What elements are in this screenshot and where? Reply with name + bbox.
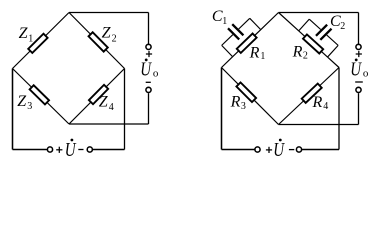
svg-text:R: R bbox=[249, 44, 260, 61]
wire up to right node (rt) bbox=[338, 68, 340, 150]
wire arm R to split bbox=[328, 57, 339, 67]
svg-text:R: R bbox=[312, 94, 323, 111]
impedance Z2 bbox=[89, 32, 108, 51]
impedance Z4 bbox=[89, 85, 108, 104]
label minus of U source (left) bbox=[78, 149, 83, 151]
label + of U source (left) bbox=[56, 149, 62, 151]
wire R2 branch bbox=[299, 31, 328, 57]
label Uo (left) bbox=[140, 57, 152, 80]
capacitor C2 plate lower bbox=[320, 29, 331, 40]
capacitor C1 plate lower bbox=[228, 28, 239, 39]
label minus of U source (right) bbox=[289, 149, 294, 151]
wire split to C1 branch low bbox=[222, 45, 233, 56]
wire split to C1 branch high bbox=[250, 18, 261, 29]
resistor R1 bbox=[237, 33, 257, 52]
resistor R4 bbox=[302, 84, 322, 103]
resistor R2 bbox=[303, 34, 323, 53]
impedance Z3 bbox=[30, 85, 49, 104]
wire bottom to source + bbox=[13, 149, 48, 151]
svg-text:2: 2 bbox=[303, 51, 308, 62]
label + of U source (right) bbox=[266, 149, 272, 151]
wire split to C2 branch low bbox=[328, 45, 339, 57]
label U source (right) bbox=[273, 138, 285, 161]
svg-text:U: U bbox=[65, 138, 77, 161]
capacitor C2 plate upper bbox=[316, 25, 327, 36]
wire arm to Z2 bbox=[69, 13, 125, 69]
svg-text:3: 3 bbox=[241, 101, 246, 112]
svg-text:4: 4 bbox=[109, 102, 114, 113]
wire arm L to split bbox=[222, 57, 233, 68]
svg-text:4: 4 bbox=[323, 101, 328, 112]
wire down to + terminal (rt) bbox=[358, 13, 360, 45]
svg-text:1: 1 bbox=[222, 16, 227, 27]
svg-text:Z: Z bbox=[17, 93, 27, 110]
wire top node to output bbox=[69, 12, 149, 14]
wire - terminal down bbox=[148, 93, 150, 124]
source terminal + (left) bbox=[47, 147, 52, 152]
wire C2 branch upper bbox=[309, 19, 320, 29]
wire source - to corner bbox=[93, 149, 125, 151]
capacitor C1 plate upper bbox=[232, 24, 243, 35]
terminal - of Uo (left) bbox=[146, 87, 151, 92]
wire split to top node (rt) bbox=[279, 13, 299, 31]
wire C1 branch upper bbox=[239, 18, 250, 29]
wire top node to output (rt) bbox=[279, 12, 359, 14]
label minus of Uo (left) bbox=[146, 81, 151, 83]
wire source - to corner (rt) bbox=[302, 149, 339, 151]
wire arm to Z3 bbox=[13, 69, 70, 125]
source terminal + (right ckt) bbox=[255, 147, 260, 152]
source terminal - (right ckt) bbox=[296, 147, 301, 152]
wire left node down (rt) bbox=[221, 68, 223, 150]
wire up to right node bbox=[124, 69, 126, 150]
svg-text:o: o bbox=[363, 68, 369, 80]
svg-text:U: U bbox=[273, 138, 285, 161]
svg-text:R: R bbox=[230, 94, 241, 111]
wire C2 branch lower bbox=[327, 35, 338, 45]
wire arm to Z4 bbox=[69, 69, 125, 125]
impedance Z1 bbox=[28, 34, 47, 53]
svg-text:1: 1 bbox=[260, 51, 265, 62]
svg-text:R: R bbox=[292, 44, 303, 61]
label U source (left) bbox=[65, 138, 77, 161]
wire output return to bottom node (rt) bbox=[279, 124, 359, 126]
label minus of Uo (right) bbox=[355, 81, 363, 83]
wire C1 branch lower bbox=[222, 35, 233, 46]
svg-text:3: 3 bbox=[27, 101, 32, 112]
wire split to C2 branch high bbox=[299, 19, 310, 31]
wire down to + terminal bbox=[148, 13, 150, 45]
wire - terminal down (rt) bbox=[358, 93, 360, 124]
terminal - of Uo (right) bbox=[356, 87, 361, 92]
wire split to top node bbox=[261, 13, 279, 30]
svg-text:Z: Z bbox=[99, 94, 109, 111]
svg-text:2: 2 bbox=[340, 21, 345, 32]
source terminal - (left) bbox=[87, 147, 92, 152]
wire left node down bbox=[12, 69, 14, 150]
label + of Uo (left) bbox=[146, 53, 152, 55]
wire arm to R4 bbox=[279, 68, 340, 125]
svg-text:Z: Z bbox=[19, 25, 29, 42]
svg-text:1: 1 bbox=[28, 34, 33, 45]
wire R1 branch bbox=[233, 30, 261, 57]
resistor R3 bbox=[236, 82, 256, 102]
wire output return to bottom node bbox=[69, 123, 149, 125]
svg-text:Z: Z bbox=[102, 25, 112, 42]
terminal + of Uo (right) bbox=[356, 44, 361, 49]
wire bottom to source + (rt) bbox=[222, 149, 255, 151]
label + of Uo (right) bbox=[356, 53, 362, 55]
svg-text:2: 2 bbox=[112, 33, 117, 44]
svg-text:C: C bbox=[212, 8, 223, 25]
terminal + of Uo (left) bbox=[146, 44, 151, 49]
svg-text:o: o bbox=[153, 68, 159, 80]
wire arm to R3 bbox=[222, 68, 279, 125]
label Uo (right) bbox=[350, 57, 362, 80]
wire arm to Z1 bbox=[13, 13, 70, 69]
